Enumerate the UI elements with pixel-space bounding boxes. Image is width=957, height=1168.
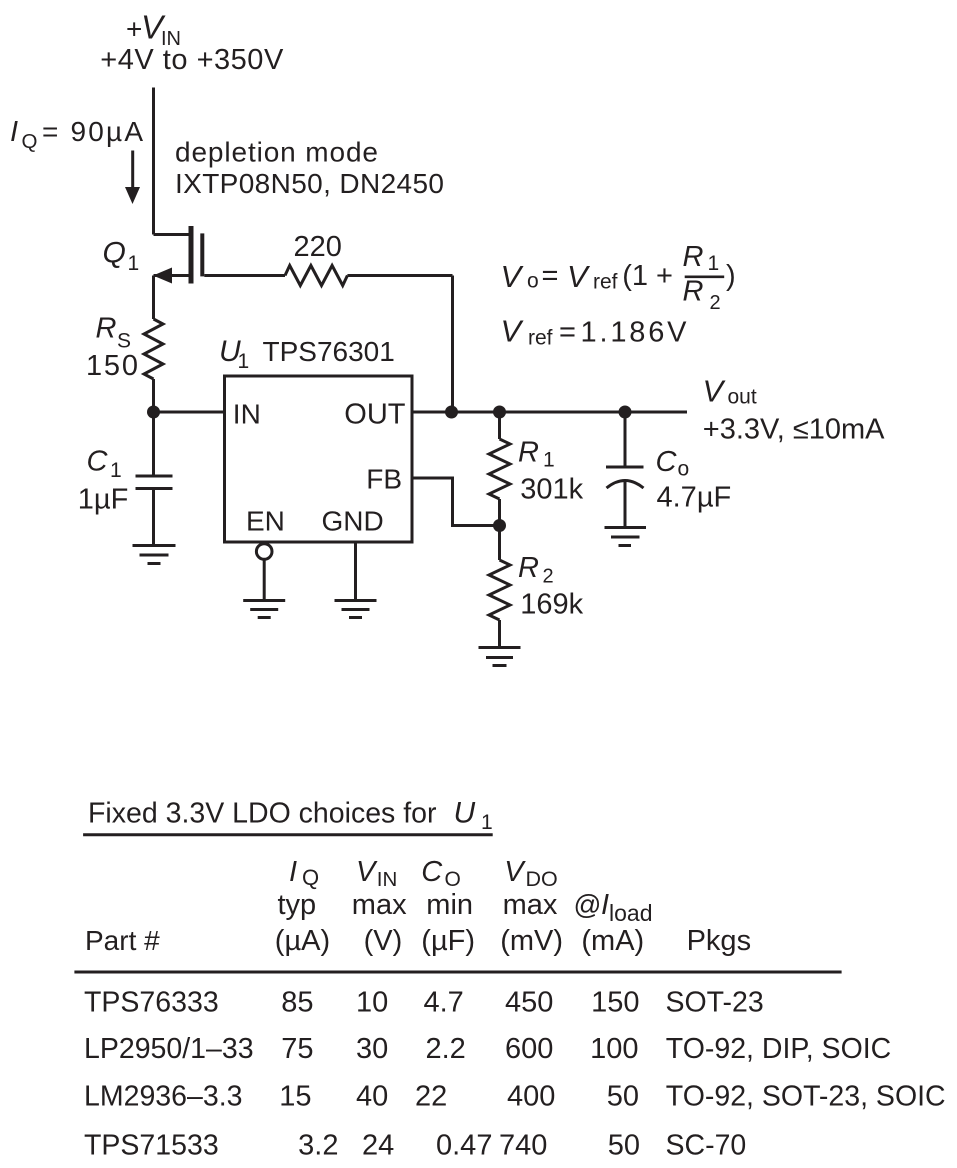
svg-text:LM2936–3.3: LM2936–3.3 <box>84 1081 242 1113</box>
svg-text:Q: Q <box>22 130 38 153</box>
svg-text:V: V <box>501 314 525 349</box>
svg-text:TPS76333: TPS76333 <box>84 987 219 1019</box>
svg-text:TPS76301: TPS76301 <box>263 336 395 367</box>
svg-text:1µF: 1µF <box>78 484 129 516</box>
IQ arrow shaft <box>131 151 134 189</box>
svg-text:10: 10 <box>356 987 388 1019</box>
svg-text:2.2: 2.2 <box>426 1033 466 1065</box>
svg-text:TPS71533: TPS71533 <box>84 1130 219 1162</box>
svg-text:out: out <box>728 386 757 409</box>
svg-text:V: V <box>501 259 525 294</box>
svg-text:1.186V: 1.186V <box>581 317 688 349</box>
svg-text:30: 30 <box>356 1033 388 1065</box>
svg-text:C: C <box>87 446 109 478</box>
table title underline <box>83 833 493 836</box>
wire: OUT output line <box>412 411 687 414</box>
wire: source down to RS <box>152 276 155 320</box>
wire: GND pin to ground <box>354 542 357 601</box>
svg-text:1: 1 <box>708 252 720 275</box>
svg-text:1: 1 <box>128 252 140 275</box>
wire: node to U1 IN <box>154 411 225 414</box>
svg-text:50: 50 <box>607 1081 639 1113</box>
svg-text:R: R <box>518 437 539 469</box>
svg-text:40: 40 <box>356 1081 388 1113</box>
junction node: R1 top <box>493 406 506 419</box>
svg-text:U: U <box>454 797 476 830</box>
svg-text:depletion mode: depletion mode <box>175 137 378 168</box>
svg-text:max: max <box>503 889 558 921</box>
wire: source connection <box>154 274 190 277</box>
svg-text:TO-92, DIP, SOIC: TO-92, DIP, SOIC <box>666 1033 891 1065</box>
svg-text:Pkgs: Pkgs <box>687 925 751 957</box>
svg-text:1: 1 <box>110 459 122 482</box>
svg-text:o: o <box>527 270 539 293</box>
svg-text:15: 15 <box>279 1081 311 1113</box>
svg-text:V: V <box>703 374 727 409</box>
svg-text:DO: DO <box>526 867 558 891</box>
ground below GND <box>335 599 377 602</box>
capacitor C1: wire, plates, wire <box>152 412 155 476</box>
svg-text:301k: 301k <box>520 474 583 506</box>
svg-text:1: 1 <box>481 811 493 834</box>
wire: +VIN vertical input <box>152 88 155 235</box>
svg-text:O: O <box>445 868 461 891</box>
svg-text:R: R <box>96 313 117 345</box>
svg-text:R: R <box>683 241 704 273</box>
svg-text:I: I <box>289 856 297 888</box>
svg-text:max: max <box>352 889 407 921</box>
svg-text:+3.3V, ≤10mA: +3.3V, ≤10mA <box>703 414 885 446</box>
svg-text:V: V <box>504 856 526 888</box>
junction node: OUT/220 <box>445 406 458 419</box>
svg-text:= 90µA: = 90µA <box>42 116 143 147</box>
svg-text:0.47: 0.47 <box>436 1130 492 1162</box>
svg-text:(mA): (mA) <box>581 925 644 957</box>
svg-text:=: = <box>542 260 559 292</box>
svg-text:SOT-23: SOT-23 <box>666 987 764 1019</box>
svg-text:1: 1 <box>238 350 250 373</box>
svg-text:(mV): (mV) <box>500 925 563 957</box>
svg-text:(1 +: (1 + <box>622 260 673 292</box>
svg-text:IN: IN <box>377 868 398 891</box>
svg-text:600: 600 <box>505 1033 553 1065</box>
svg-text:ref: ref <box>528 327 553 350</box>
svg-text:EN: EN <box>246 506 285 537</box>
svg-text:IXTP08N50, DN2450: IXTP08N50, DN2450 <box>175 168 444 199</box>
svg-text:(V): (V) <box>364 925 403 957</box>
svg-text:Fixed 3.3V LDO choices for: Fixed 3.3V LDO choices for <box>88 798 437 830</box>
ground below EN <box>243 599 285 602</box>
svg-text:V: V <box>567 259 591 294</box>
svg-text:=: = <box>559 317 576 349</box>
svg-text:LP2950/1–33: LP2950/1–33 <box>84 1033 254 1065</box>
ground below C1 <box>133 544 176 547</box>
svg-text:400: 400 <box>507 1081 555 1113</box>
svg-text:min: min <box>426 889 473 921</box>
MOSFET Q1 gate bar <box>200 233 204 276</box>
svg-text:SC-70: SC-70 <box>666 1130 747 1162</box>
svg-text:Q: Q <box>103 237 126 270</box>
svg-text:ref: ref <box>593 271 618 294</box>
svg-text:C: C <box>421 856 443 888</box>
U1 box <box>225 376 413 542</box>
svg-text:450: 450 <box>505 987 553 1019</box>
svg-text:75: 75 <box>281 1033 313 1065</box>
svg-text:TO-92, SOT-23, SOIC: TO-92, SOT-23, SOIC <box>666 1081 946 1113</box>
svg-text:Part #: Part # <box>85 925 160 956</box>
resistor R2: wire, zigzag, wire <box>498 526 501 561</box>
svg-text:22: 22 <box>415 1081 447 1113</box>
MOSFET Q1 source arrowhead <box>153 268 172 284</box>
svg-text:150: 150 <box>86 350 138 382</box>
svg-text:+: + <box>126 14 142 45</box>
svg-text:85: 85 <box>281 987 313 1019</box>
resistor 220 zigzag <box>285 266 347 286</box>
svg-text:4.7: 4.7 <box>424 987 464 1019</box>
junction node: Co top <box>619 406 632 419</box>
svg-text:740: 740 <box>499 1130 547 1162</box>
svg-text:GND: GND <box>322 506 384 537</box>
svg-text:24: 24 <box>362 1130 394 1162</box>
wire: gate lead <box>204 274 285 277</box>
wire: FB lead <box>412 478 500 526</box>
svg-text:I: I <box>10 116 18 148</box>
svg-text:100: 100 <box>590 1033 638 1065</box>
svg-text:220: 220 <box>294 231 342 263</box>
ground below R2 <box>479 646 521 649</box>
svg-text:@: @ <box>574 889 602 920</box>
svg-text:typ: typ <box>278 889 317 921</box>
junction node: R1/R2/FB <box>493 519 506 532</box>
IQ arrowhead <box>125 187 140 204</box>
svg-text:R: R <box>683 276 704 308</box>
svg-text:3.2: 3.2 <box>298 1130 338 1162</box>
ground below Co <box>605 526 647 529</box>
svg-text:1: 1 <box>543 449 555 472</box>
svg-text:150: 150 <box>591 987 639 1019</box>
wire: EN to ground <box>263 559 266 600</box>
wire: RS to node <box>152 379 155 412</box>
svg-text:FB: FB <box>366 464 402 495</box>
wire: drain connection <box>154 233 190 236</box>
svg-text:(µF): (µF) <box>421 925 475 957</box>
svg-text:Q: Q <box>302 865 319 890</box>
capacitor Co: wire, flat plate, curved plate, wire <box>624 412 627 467</box>
EN pin circle <box>256 544 272 560</box>
svg-text:o: o <box>678 458 690 481</box>
resistor R1: wire, zigzag, wire <box>498 412 501 439</box>
svg-text:): ) <box>726 260 736 292</box>
svg-text:OUT: OUT <box>344 399 406 431</box>
svg-text:load: load <box>609 900 652 926</box>
wire: corner down to OUT node <box>451 276 454 413</box>
resistor RS zigzag <box>144 319 163 379</box>
svg-text:R: R <box>518 552 539 584</box>
svg-text:(µA): (µA) <box>275 925 330 957</box>
header rule <box>74 971 841 974</box>
svg-text:50: 50 <box>608 1130 640 1162</box>
svg-text:169k: 169k <box>520 589 583 621</box>
svg-text:2: 2 <box>710 292 721 314</box>
svg-text:2: 2 <box>543 566 554 588</box>
MOSFET Q1 channel bar <box>189 226 194 284</box>
svg-text:V: V <box>356 856 378 888</box>
svg-text:C: C <box>656 446 678 478</box>
svg-text:+4V to +350V: +4V to +350V <box>100 44 284 76</box>
svg-text:I: I <box>601 889 609 921</box>
wire: 220 to corner <box>347 274 452 277</box>
junction node: RS/C1/IN <box>147 406 160 419</box>
svg-text:4.7µF: 4.7µF <box>657 482 732 514</box>
svg-text:IN: IN <box>233 399 261 430</box>
